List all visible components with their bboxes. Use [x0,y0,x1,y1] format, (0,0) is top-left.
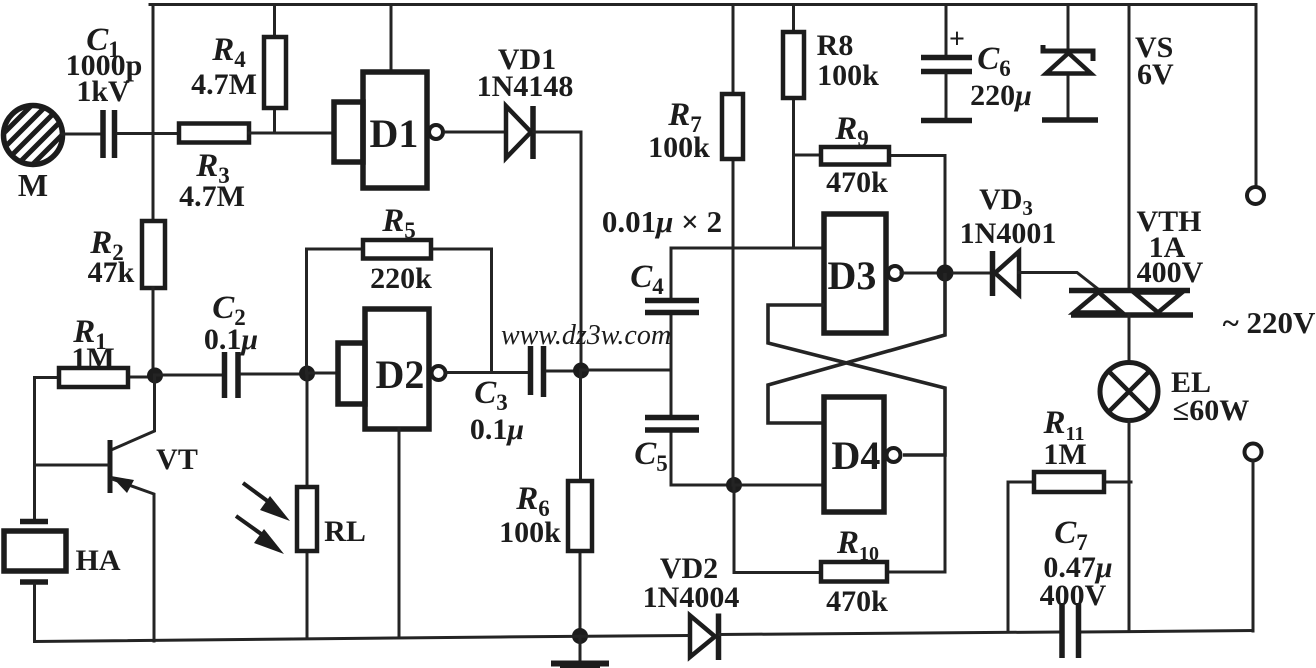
svg-text:1kV: 1kV [76,75,130,108]
capacitor C6 [921,5,1032,121]
wire R1 left down to HA and base [33,378,36,520]
wire top supply rail [150,3,1256,6]
diode VD2 1N4004 [643,552,740,660]
diode VD3 1N4001 [953,183,1098,296]
microphone M [0,60,137,210]
wire VD1 down to node A [534,132,581,370]
capacitor C3 [470,346,544,446]
wire C4 top to D3 input [671,247,824,250]
wire M to C1 [62,133,100,136]
buzzer HA [4,522,121,642]
svg-text:47k: 47k [88,256,135,289]
resistor R7 [648,5,743,486]
svg-text:6V: 6V [1137,58,1174,91]
wire C1 to junction and R3 [118,132,179,135]
gate D1 [334,5,443,189]
resistor R9 [794,111,946,273]
svg-text:100k: 100k [817,59,879,92]
bottom rail left [35,636,689,642]
svg-text:+: + [949,24,965,55]
resistor R1 [35,314,156,387]
wire node to C2 [155,374,222,377]
svg-text:VT: VT [156,443,198,476]
capacitor C7 [1040,515,1113,658]
svg-text:www.dz3w.com: www.dz3w.com [501,320,671,351]
wire C5 to node B [671,484,734,487]
svg-text:≤60W: ≤60W [1173,394,1249,427]
svg-text:220μ: 220μ [970,79,1032,112]
gate D3 [824,214,937,333]
bottom rail right [1081,631,1253,633]
svg-text:M: M [18,167,48,203]
lamp EL [1100,363,1249,632]
wire D2 output to C3 [447,371,528,374]
wire left vertical from rail to R2 [152,5,155,222]
resistor R11 [1008,405,1131,632]
capacitor C2 [204,290,258,398]
svg-text:D1: D1 [370,111,419,156]
wire C2 to D2 input node [241,373,307,376]
resistor R5 feedback [307,203,492,373]
diode VD1 1N4148 [477,43,574,159]
resistor R3 [179,124,249,214]
capacitor C5 [634,370,699,485]
svg-text:RL: RL [324,515,366,548]
svg-text:HA: HA [76,544,121,577]
svg-text:1N4004: 1N4004 [643,581,740,614]
svg-text:1M: 1M [1043,438,1086,471]
wire C3 to node A [547,370,581,373]
wire D4 out to D3 in (cross) [768,305,945,455]
resistor R2 [88,221,165,375]
wire node to D2 tab [307,372,338,375]
node ground junction [572,628,588,644]
svg-text:470k: 470k [826,585,888,618]
svg-text:470k: 470k [826,166,888,199]
capacitor C1 [66,22,143,158]
wire D1 output to VD1 [445,131,505,134]
svg-text:D4: D4 [832,433,881,478]
gate D4 [824,397,901,512]
node base junction [147,368,163,384]
terminal top right [1247,5,1264,205]
svg-text:1M: 1M [71,342,114,375]
node B [726,477,742,493]
wire node A to C4/C5 [581,369,671,372]
svg-text:220k: 220k [370,262,432,295]
resistor R6 [499,370,592,636]
svg-text:100k: 100k [499,516,561,549]
svg-text:1N4001: 1N4001 [960,217,1057,250]
svg-text:0.1μ: 0.1μ [470,413,524,446]
gate D2 [338,309,446,637]
svg-text:0.01μ × 2: 0.01μ × 2 [602,204,722,239]
ground [551,636,609,668]
svg-text:D3: D3 [828,253,877,298]
node D3 output [937,265,954,282]
photoresistor RL [236,373,366,638]
wire node B to D4 input [734,484,824,487]
triac VTH [1069,5,1204,363]
node D2 input [299,366,315,382]
svg-text:~ 220V: ~ 220V [1223,305,1316,340]
svg-text:D2: D2 [376,352,425,397]
resistor R8 [783,5,879,249]
wire D3 out to D4 in (cross) [768,273,945,423]
zener diode VS [1042,5,1174,121]
svg-text:100k: 100k [648,131,710,164]
svg-text:400V: 400V [1137,256,1204,289]
transistor VT [35,375,198,641]
resistor R10 [734,455,945,618]
wire R3 to D1 input [249,132,334,135]
svg-text:4.7M: 4.7M [191,68,257,101]
bottom rail middle [720,632,1059,635]
terminal bottom right [1245,444,1262,632]
capacitor C4 [630,248,699,370]
svg-text:0.1μ: 0.1μ [204,323,258,356]
node A [573,363,589,379]
svg-text:400V: 400V [1040,579,1107,612]
svg-text:R8: R8 [817,29,854,62]
resistor R4 [191,5,286,134]
svg-text:1N4148: 1N4148 [477,70,574,103]
svg-text:4.7M: 4.7M [179,180,245,213]
